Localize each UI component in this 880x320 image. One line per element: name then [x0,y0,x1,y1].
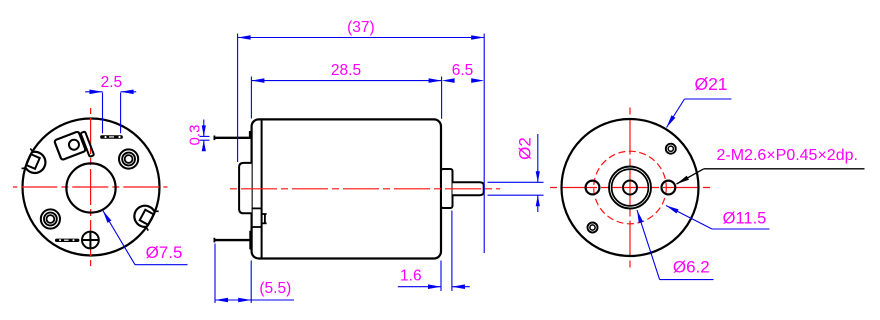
rivet hole upper-right (three rings) [119,149,138,168]
leader for Ø21 with arrow [667,99,685,128]
terminal top (side view) [215,137,252,139]
front bearing boss [441,169,453,208]
leader for 2-M2.6 thread callout (black) [677,169,704,184]
svg-text:Ø11.5: Ø11.5 [723,210,767,228]
terminal tab on left rim (D shape) [22,148,49,176]
extension line shaft tip for (37)/6.5 [483,34,485,254]
small rivet hole bottom-left [588,223,598,233]
small rivet hole top-right [666,144,676,154]
extension line can right face for 28.5/6.5 [441,77,443,119]
svg-text:2.5: 2.5 [101,74,123,91]
leader for Ø6.2 with arrow [637,210,660,280]
dimension 1.6 line and arrows [398,286,441,288]
svg-text:6.5: 6.5 [452,62,474,79]
svg-text:2-M2.6×P0.45×2dp.: 2-M2.6×P0.45×2dp. [717,147,858,164]
dimension 2.5 extension lines [102,93,104,134]
svg-text:Ø2: Ø2 [515,137,534,160]
leader for Ø11.5 with arrow [666,206,712,230]
end-cap to can joint line [261,120,263,258]
brush assembly upper-left [54,129,94,167]
dimension 0.3 line and arrows [203,120,205,137]
motor can body outline [252,119,441,258]
bottom-left slot [55,239,79,242]
terminal grommet bottom [250,231,251,249]
middle view horizontal center line [230,188,500,190]
terminal tab on right rim (D shape) [130,202,158,231]
svg-text:28.5: 28.5 [331,62,361,79]
svg-text:1.6: 1.6 [400,268,422,285]
svg-text:Ø7.5: Ø7.5 [146,243,183,262]
svg-text:Ø6.2: Ø6.2 [673,258,710,277]
mounting hole M2.6 right [662,181,676,195]
left view rear end-cap outline circle [23,119,160,256]
svg-text:0.3: 0.3 [186,125,203,146]
top vent slot of rear cap [100,135,123,139]
dimension 28.5 line and arrows [251,80,441,82]
left view central hole Ø7.5 [66,163,115,212]
dimension (5.5) line and arrows [215,299,294,301]
dimension (5.5) extension lines [214,244,216,304]
right view vertical center line [629,107,631,268]
front boss circle Ø6.2 (double ring) [609,167,651,209]
extension line collar face for (37) [237,34,239,163]
motor shaft [453,182,484,195]
right view horizontal center line [549,187,711,189]
mounting hole M2.6 left [586,181,600,195]
dimension Ø2 line and arrows [537,134,539,182]
dimension Ø2 extension lines [488,181,544,183]
right view outline circle Ø21 [562,119,699,256]
dimension 1.6 extension lines [440,261,442,292]
dimension 2.5 dimension line and arrows [85,91,102,93]
dimension 0.3 extension ticks [200,135,210,137]
svg-text:(37): (37) [347,19,375,36]
dimension (37) line and arrows [238,37,485,39]
left view horizontal center line [13,186,168,188]
bolt circle Ø11.5 (red dashed) [594,151,667,224]
svg-text:Ø21: Ø21 [694,74,727,94]
dimension 6.5 line and arrows [442,78,455,83]
extension line cap face for 28.5 [250,77,252,119]
svg-text:(5.5): (5.5) [259,280,291,297]
terminal bottom (side view) [215,239,252,241]
left view vertical center line [90,108,92,266]
can crimp tab detail [252,207,262,209]
rear collar bump on end cap [239,163,252,213]
shaft circle Ø2 [623,181,637,195]
rivet hole lower-left (three rings) [41,209,60,228]
terminal grommet top [250,132,252,137]
leader for Ø7.5 with arrow [103,211,135,265]
screw head with cross at bottom [82,232,99,249]
